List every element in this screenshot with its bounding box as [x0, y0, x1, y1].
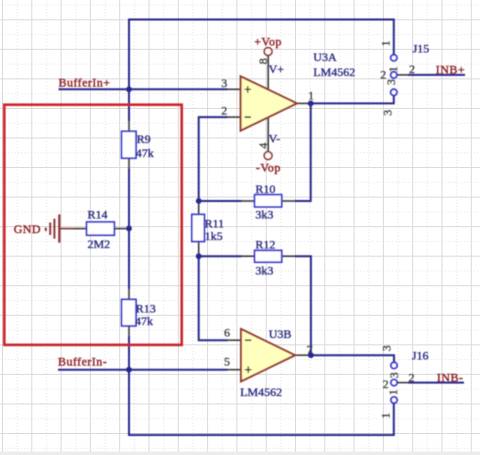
- resistor R11: [192, 214, 205, 241]
- svg-text:V-: V-: [269, 132, 281, 146]
- pin R12 left lead: [242, 255, 255, 257]
- svg-text:INB-: INB-: [437, 371, 463, 385]
- resistor R12: [255, 250, 282, 262]
- svg-text:2: 2: [409, 370, 415, 384]
- connector J15 pin2 circle: [391, 72, 397, 78]
- wire GND stem to R14: [73, 228, 87, 230]
- junction U3B output: [308, 352, 314, 358]
- pin R10 left lead: [242, 200, 255, 202]
- connector J16 pin2 circle: [391, 380, 397, 386]
- connector J16 pin3 circle: [391, 362, 397, 368]
- svg-text:6: 6: [224, 326, 230, 340]
- connector J15 pin1 circle: [391, 55, 397, 61]
- pin U3A V+: [267, 56, 269, 89]
- wire R10 to U3A output: [295, 103, 311, 201]
- svg-text:47k: 47k: [136, 146, 154, 160]
- svg-text:3: 3: [380, 345, 394, 351]
- wire R11 junction to R12: [199, 255, 242, 257]
- power port +Vop circle: [264, 48, 272, 56]
- wire top rail: [129, 20, 394, 55]
- pin J16 pin2 stub: [397, 382, 408, 384]
- wire BufferIn+: [59, 88, 228, 90]
- svg-text:3: 3: [221, 76, 227, 90]
- svg-text:3k3: 3k3: [255, 207, 273, 221]
- pin R12 right lead: [282, 255, 295, 257]
- op-amp U3B: [241, 329, 295, 381]
- svg-text:1k5: 1k5: [205, 229, 223, 243]
- svg-text:U3A: U3A: [313, 50, 337, 64]
- pin U3A pin3 stub: [228, 88, 241, 90]
- svg-text:GND: GND: [14, 222, 41, 236]
- svg-text:R9: R9: [137, 132, 151, 146]
- svg-text:LM4562: LM4562: [240, 385, 282, 399]
- power port -Vop circle: [264, 152, 272, 160]
- svg-text:4: 4: [256, 143, 270, 149]
- svg-text:1: 1: [386, 66, 400, 72]
- wire R9 to R14 junction: [128, 169, 130, 290]
- wire J15 pin2 to INB+: [408, 74, 465, 76]
- pin R10 right lead: [282, 200, 295, 202]
- junction BufferIn+: [126, 86, 132, 92]
- pin U3B output stub: [295, 354, 311, 356]
- resistor R9: [122, 131, 136, 158]
- svg-text:R14: R14: [88, 208, 108, 222]
- svg-text:3: 3: [381, 110, 395, 116]
- svg-text:1: 1: [308, 89, 314, 103]
- wire R9 bottom lead: [128, 158, 130, 168]
- svg-text:2M2: 2M2: [88, 237, 111, 251]
- wire BufferIn-: [58, 369, 228, 371]
- svg-text:J16: J16: [412, 349, 429, 363]
- ground symbol: [45, 214, 61, 242]
- svg-text:3: 3: [387, 372, 401, 378]
- junction R14: [126, 226, 132, 232]
- wire U3B output to J16 pin3: [311, 355, 394, 362]
- wire J16 pin2 to INB-: [408, 382, 464, 384]
- junction R11 bottom: [196, 253, 202, 259]
- svg-text:5: 5: [224, 355, 230, 369]
- wire U3A output to J15 pin3: [311, 96, 394, 104]
- wire R11 junction to R10: [199, 200, 242, 202]
- svg-text:1: 1: [379, 413, 393, 419]
- wire R13 top lead: [128, 289, 130, 299]
- svg-text:47k: 47k: [135, 314, 153, 328]
- pin U3A pin2 stub: [228, 116, 241, 118]
- wire R11 bottom junction down to U3B pin6: [199, 256, 228, 340]
- svg-text:1: 1: [378, 40, 392, 46]
- resistor R13: [122, 299, 136, 326]
- svg-text:3k3: 3k3: [255, 263, 273, 277]
- svg-text:+Vop: +Vop: [254, 34, 282, 48]
- svg-text:J15: J15: [413, 41, 430, 55]
- wire R12 to U3B output: [295, 256, 311, 355]
- svg-text:INB+: INB+: [436, 62, 465, 76]
- svg-text:2: 2: [221, 104, 227, 118]
- svg-text:8: 8: [256, 58, 270, 64]
- connector J15 pin3 circle: [391, 89, 397, 95]
- svg-text:R10: R10: [255, 182, 275, 196]
- svg-text:U3B: U3B: [269, 327, 292, 341]
- svg-text:BufferIn+: BufferIn+: [59, 75, 111, 89]
- svg-text:3: 3: [384, 79, 398, 85]
- svg-text:R12: R12: [255, 238, 275, 252]
- svg-text:-Vop: -Vop: [256, 160, 281, 174]
- op-amp U3A: [241, 76, 297, 130]
- junction U3A output: [308, 101, 314, 107]
- pin U3A V-: [267, 118, 269, 152]
- connector J16 pin1 circle: [391, 397, 397, 403]
- pin R11 bottom lead: [198, 242, 200, 257]
- junction R11 top: [196, 198, 202, 204]
- pin U3B pin6 stub: [228, 339, 242, 341]
- pin R14 right lead: [114, 228, 129, 230]
- red highlight rectangle: [4, 105, 181, 345]
- wire U3A pin2 to R11 top junction: [199, 117, 228, 201]
- junction BufferIn-: [126, 367, 132, 373]
- svg-text:2: 2: [409, 62, 415, 76]
- wire main left vertical: [128, 19, 130, 122]
- svg-text:BufferIn-: BufferIn-: [58, 354, 107, 368]
- svg-text:1: 1: [386, 389, 400, 395]
- svg-text:V+: V+: [269, 62, 285, 76]
- pin R11 top lead: [198, 201, 200, 214]
- svg-text:LM4562: LM4562: [313, 65, 355, 79]
- svg-text:7: 7: [307, 343, 313, 357]
- pin U3A output stub: [297, 102, 311, 104]
- svg-text:2: 2: [383, 377, 389, 391]
- resistor R10: [255, 195, 282, 207]
- resistor R14: [87, 222, 115, 235]
- wire R13 to bottom rail: [129, 336, 394, 435]
- pin J15 pin2 stub: [397, 74, 408, 76]
- wire R9 top lead: [128, 121, 130, 131]
- wire R13 bottom lead: [128, 326, 130, 336]
- pin U3B pin5 stub: [228, 369, 242, 371]
